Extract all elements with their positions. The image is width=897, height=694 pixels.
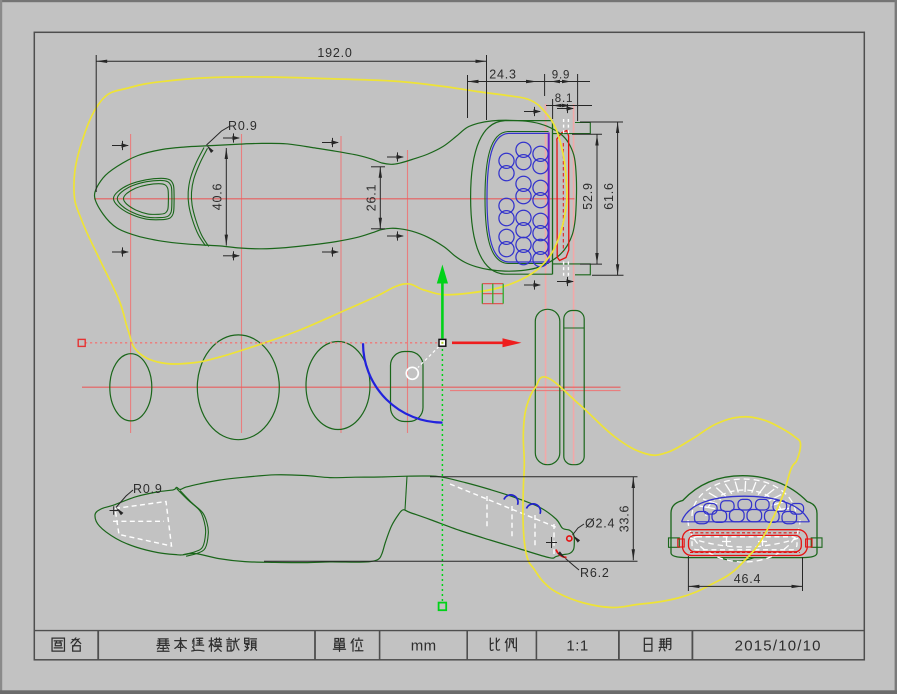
svg-text:Ø2.4: Ø2.4 <box>585 517 615 531</box>
front view purple edge line <box>548 133 550 264</box>
svg-text:9.9: 9.9 <box>552 70 570 82</box>
window border <box>0 0 897 2</box>
svg-text:26.1: 26.1 <box>365 184 379 212</box>
back view outer contour <box>671 476 817 558</box>
back view red dashed rows <box>690 533 800 553</box>
back view hidden dome pattern (white dashed) <box>688 479 800 562</box>
cross-section ellipse 1 <box>110 354 152 421</box>
top view heel pad triangle (3 contours) <box>114 178 175 220</box>
red horizontal centreline of top view <box>94 198 575 200</box>
heel wedge hidden lines (white dashed) <box>450 484 558 554</box>
svg-text:192.0: 192.0 <box>317 46 352 60</box>
svg-text:46.4: 46.4 <box>734 572 762 586</box>
green axis end square <box>439 603 447 611</box>
front view top tab <box>553 123 591 134</box>
Y axis green arrow <box>441 282 444 339</box>
svg-text:2015/10/10: 2015/10/10 <box>735 638 822 655</box>
red dotted datum line <box>85 342 438 344</box>
leader R0.9 top <box>207 126 231 145</box>
cross-section ellipse 3 <box>306 342 370 430</box>
side view toe-cap seam (double) <box>177 489 206 555</box>
red fillet arc R6.2 <box>556 550 567 558</box>
red hole mark <box>567 536 572 541</box>
red horizontal centrelines of section row <box>82 386 621 388</box>
X axis red arrow <box>452 341 503 344</box>
section direction arrows <box>112 141 128 150</box>
svg-text:1:1: 1:1 <box>566 638 588 655</box>
R0.9 centre cross <box>110 506 119 514</box>
cross-section ellipse 2 <box>197 335 279 440</box>
svg-text:24.3: 24.3 <box>489 68 517 82</box>
side view hidden lines (white dashed) <box>113 502 172 547</box>
title: 日期 <box>644 638 670 651</box>
origin square <box>439 339 446 346</box>
svg-text:mm: mm <box>411 638 437 655</box>
yellow freeform spline (upper blob) <box>74 77 567 364</box>
back view red band outer <box>683 530 808 556</box>
white dashed leader to circle <box>418 347 439 368</box>
construction grid: red vertical section lines, top view <box>131 134 408 433</box>
front view bottom tab <box>553 264 591 275</box>
svg-text:40.6: 40.6 <box>211 183 225 211</box>
top view sole outline <box>95 120 577 271</box>
red projection lines, toe view to cross sections <box>546 104 574 465</box>
dim 40.6 lines <box>225 148 227 246</box>
title block <box>34 631 864 660</box>
green dotted axis down <box>441 349 443 601</box>
svg-text:R0.9: R0.9 <box>228 119 258 133</box>
back view blue arch <box>682 496 810 522</box>
tall stadium section A <box>535 309 560 464</box>
svg-text:R0.9: R0.9 <box>133 482 163 496</box>
front view inner green rim <box>485 132 549 264</box>
dim 26.1 lines <box>379 167 381 229</box>
white circle marker <box>406 367 418 379</box>
side view sole outline <box>95 475 574 563</box>
svg-text:33.6: 33.6 <box>618 505 632 533</box>
blue quarter arc at origin <box>363 343 443 422</box>
cross-section stadium 4 <box>391 352 424 422</box>
front view outer contour <box>471 121 553 275</box>
dim 61.6 lines <box>617 122 619 275</box>
dim 8.1 lines <box>546 105 592 107</box>
hidden dashes at tabs (white) <box>564 119 569 276</box>
title: 圖名 <box>52 638 81 651</box>
dim 52.9 lines <box>596 135 598 265</box>
dim 24.3 / 9.9 lines <box>468 81 591 83</box>
back view red side notches <box>678 539 684 547</box>
svg-text:52.9: 52.9 <box>581 182 595 210</box>
top view toe-cap seam (double curve) <box>188 148 205 246</box>
back view left tab <box>669 538 680 547</box>
centre cross at heel hole <box>546 537 557 548</box>
svg-text:R6.2: R6.2 <box>580 566 610 580</box>
back view vent cups row 1 (blue) <box>695 499 804 523</box>
dimension arrowheads <box>96 60 107 63</box>
leader R6.2 <box>566 559 580 571</box>
leader dia 2.4 <box>573 524 585 535</box>
leader R0.9 side <box>116 490 133 508</box>
front view thin red profile <box>557 131 569 261</box>
dim 192.0 lines <box>96 60 486 62</box>
front view blue rim <box>487 133 549 262</box>
dim 46.4 lines <box>688 585 802 587</box>
blue bumps on heel edge <box>504 495 518 505</box>
dim 33.6 lines <box>632 477 634 560</box>
title: 單位 <box>333 638 363 652</box>
svg-text:61.6: 61.6 <box>602 182 616 210</box>
tall stadium section B <box>564 311 584 465</box>
title: 比例 <box>490 638 516 651</box>
yellow freeform spline (lower blob) <box>523 377 801 608</box>
back view right tab <box>811 538 822 547</box>
red datum square <box>78 339 85 346</box>
back view red band inner <box>689 535 802 551</box>
side view internal vertical edge <box>405 476 407 510</box>
svg-text:8.1: 8.1 <box>555 93 573 105</box>
vent holes pattern (blue) <box>499 142 548 267</box>
back view vent cups row 2 (blue) <box>695 512 710 524</box>
title: 基本建模試題 <box>157 638 257 651</box>
back view white dashed details <box>690 537 799 550</box>
grid icon <box>482 284 503 304</box>
back view bottom arc <box>720 558 754 561</box>
